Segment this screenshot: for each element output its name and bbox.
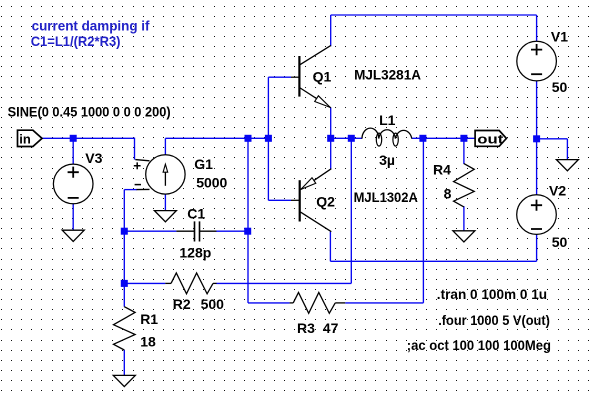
- wire: [123, 283, 125, 306]
- svg-text:18: 18: [140, 333, 156, 349]
- svg-text:V3: V3: [85, 150, 102, 166]
- svg-text:50: 50: [552, 79, 568, 95]
- svg-text:500: 500: [201, 296, 225, 312]
- svg-text:G1: G1: [194, 156, 213, 172]
- wire: [351, 137, 362, 139]
- transistor Q1: [291, 45, 331, 107]
- wire: [330, 260, 536, 262]
- svg-text:L1: L1: [379, 112, 396, 128]
- voltage source V2: [517, 195, 557, 235]
- svg-text:MJL1302A: MJL1302A: [354, 189, 418, 205]
- svg-text:R4: R4: [433, 162, 451, 178]
- wire: [423, 137, 475, 139]
- wire: [247, 138, 249, 231]
- svg-text:.tran 0 100m 0 1u: .tran 0 100m 0 1u: [437, 287, 547, 302]
- wire: [345, 302, 423, 304]
- wire: [267, 138, 269, 200]
- wire: [463, 138, 465, 164]
- wire: [164, 194, 166, 211]
- wire: [536, 81, 538, 195]
- wire: [165, 137, 268, 139]
- resistor R4: [454, 164, 475, 207]
- junction node in/V3: [70, 135, 77, 142]
- svg-text:.four 1000 5 V(out): .four 1000 5 V(out): [438, 313, 550, 328]
- wire: [330, 15, 332, 46]
- voltage source V1: [517, 41, 557, 81]
- wire: [123, 231, 125, 283]
- svg-text:Q2: Q2: [316, 193, 335, 209]
- junction node bases: [265, 135, 272, 142]
- svg-text:V2: V2: [549, 183, 566, 199]
- wire: [216, 282, 351, 284]
- transistor Q2: [291, 169, 331, 232]
- junction node R2/out rail: [348, 135, 355, 142]
- wire: [536, 234, 538, 261]
- ground: [556, 160, 578, 171]
- wire: [330, 108, 332, 139]
- port out: [475, 131, 506, 147]
- ground: [154, 211, 176, 222]
- svg-text:Q1: Q1: [313, 68, 332, 84]
- wire: [536, 15, 538, 42]
- resistor R1: [114, 307, 136, 350]
- junction node C1 right: [244, 228, 251, 235]
- wire: [134, 138, 136, 160]
- svg-text:128p: 128p: [179, 244, 211, 260]
- junction node R4: [460, 135, 467, 142]
- wire: [463, 206, 465, 231]
- ground: [113, 375, 135, 386]
- junction node out/L1/R3: [419, 135, 426, 142]
- wire: [331, 14, 537, 16]
- svg-text:SINE(0 0.45 1000 0 0 0 200): SINE(0 0.45 1000 0 0 0 200): [8, 104, 171, 119]
- wire: [267, 77, 269, 138]
- wire: [537, 138, 568, 140]
- svg-text:MJL3281A: MJL3281A: [354, 66, 421, 82]
- wire: [124, 230, 176, 232]
- wire: [72, 204, 74, 231]
- vccs G1: [134, 155, 185, 194]
- svg-text:R3: R3: [297, 320, 315, 336]
- wire: [331, 137, 352, 139]
- wire: [124, 189, 137, 191]
- ground: [62, 230, 84, 241]
- voltage source V3: [53, 164, 93, 204]
- junction node base drive/C1: [245, 135, 252, 142]
- svg-text:C1: C1: [187, 206, 205, 222]
- svg-text:R1: R1: [140, 311, 158, 327]
- port in: [18, 130, 43, 146]
- junction node fb/C1: [121, 228, 128, 235]
- svg-text:C1=L1/(R2*R3): C1=L1/(R2*R3): [31, 33, 121, 49]
- resistor R2: [165, 273, 216, 294]
- wire: [350, 138, 352, 283]
- wire: [123, 350, 125, 375]
- svg-text:8: 8: [444, 186, 452, 202]
- svg-text:50: 50: [552, 234, 568, 250]
- wire: [330, 138, 332, 169]
- wire: [248, 302, 290, 304]
- wire: [566, 139, 568, 160]
- svg-text:R2: R2: [173, 296, 191, 312]
- svg-text:V1: V1: [551, 29, 568, 45]
- wire: [42, 137, 135, 139]
- svg-text:;ac oct 100 100 100Meg: ;ac oct 100 100 100Meg: [407, 338, 551, 353]
- resistor R3: [290, 293, 346, 314]
- svg-text:out: out: [477, 131, 504, 146]
- wire: [72, 138, 74, 164]
- junction node V1/V2 mid: [533, 135, 540, 142]
- wire: [422, 138, 424, 303]
- junction node fb/R2/R1: [121, 280, 128, 287]
- svg-text:current damping if: current damping if: [32, 18, 150, 34]
- wire: [123, 190, 125, 232]
- svg-text:47: 47: [323, 320, 339, 336]
- svg-text:3µ: 3µ: [379, 152, 395, 168]
- svg-text:in: in: [19, 131, 31, 146]
- wire: [164, 138, 166, 155]
- junction node emitters: [327, 135, 334, 142]
- svg-text:5000: 5000: [196, 175, 227, 191]
- wire: [247, 231, 249, 303]
- inductor L1: [362, 128, 412, 146]
- ground: [453, 231, 475, 242]
- wire: [216, 230, 248, 232]
- wire: [329, 232, 331, 261]
- capacitor C1: [176, 221, 216, 241]
- wire: [412, 137, 424, 139]
- wire: [268, 76, 291, 78]
- wire: [268, 199, 291, 201]
- wire: [124, 282, 165, 284]
